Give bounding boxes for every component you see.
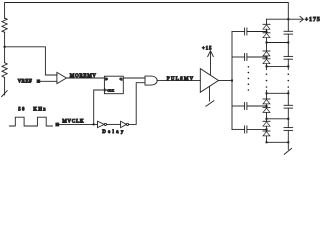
diode D7 xyxy=(266,119,268,122)
capacitor C6 plates xyxy=(284,55,293,57)
wire amplifier output to left rail xyxy=(219,80,233,82)
svg-text:Q: Q xyxy=(120,77,123,81)
svg-text:D: D xyxy=(105,77,108,81)
svg-text:+175: +175 xyxy=(305,16,321,23)
wire delay output to AND gate bottom input xyxy=(129,83,145,125)
capacitor C2 row wire right xyxy=(247,56,267,58)
node8 junction xyxy=(266,128,268,130)
inverter U4 xyxy=(121,121,127,127)
svg-text:VREF: VREF xyxy=(18,80,33,85)
diode D2 xyxy=(266,32,268,33)
negative supply stub xyxy=(209,87,211,101)
flip-flop U2 box xyxy=(104,76,123,94)
right column vertical segments xyxy=(287,19,289,31)
svg-text:MVCLK: MVCLK xyxy=(62,120,84,125)
dots continuation right cap column xyxy=(288,73,290,87)
svg-text:50: 50 xyxy=(18,108,26,113)
capacitor C8 plates xyxy=(284,127,293,129)
node2 wire xyxy=(267,42,289,44)
svg-text:Delay: Delay xyxy=(102,130,125,135)
node1 junction xyxy=(266,31,268,33)
diode column stub above node5 xyxy=(266,91,268,94)
capacitor C5 plates xyxy=(284,30,293,32)
diode column stub below node4 xyxy=(266,66,268,69)
wire R2 to ground xyxy=(4,78,6,95)
capacitor C3 plates xyxy=(244,103,246,110)
wire CLK from MVCLK line xyxy=(94,90,105,124)
resistor R1 xyxy=(2,18,7,32)
left rail xyxy=(231,32,233,130)
diode D1 xyxy=(263,23,270,25)
+175 arrowhead xyxy=(300,16,303,22)
negative supply slash xyxy=(206,101,214,107)
op-amp U1 comparator triangle xyxy=(57,72,67,83)
resistor R2 xyxy=(2,63,7,78)
power +15 arrow xyxy=(210,52,212,75)
diode D6 xyxy=(266,106,268,108)
ground (right) stub xyxy=(287,142,289,149)
AND gate U5 xyxy=(145,76,157,85)
diode D4 xyxy=(266,57,268,59)
wire divider node to comparator + input xyxy=(5,47,57,75)
junction amp/rail xyxy=(231,80,233,82)
capacitor C7 plates xyxy=(284,104,293,106)
diode D5 xyxy=(266,93,268,99)
capacitor C4 row wire left xyxy=(232,128,245,130)
terminal MVCLK square xyxy=(55,123,59,127)
svg-text:PULSMV: PULSMV xyxy=(167,77,195,82)
diode column top wire xyxy=(266,19,268,24)
right column stub above node5 xyxy=(287,91,289,94)
capacitor C2 plates xyxy=(244,54,246,61)
junction MVCLK/CLK tee xyxy=(93,123,95,125)
wire PULSMV AND output to amplifier xyxy=(157,80,200,82)
wire VREF to comparator - input xyxy=(40,80,57,82)
dots continuation left cap column xyxy=(248,66,250,91)
node4 wire xyxy=(267,65,289,67)
node6 junction xyxy=(266,105,268,107)
node divider junction xyxy=(4,46,6,48)
capacitor C1 row wire left xyxy=(232,31,245,33)
diode D8 xyxy=(266,129,268,131)
ground (left slash) xyxy=(2,91,8,97)
capacitor C4 plates xyxy=(244,126,246,133)
wire node to R2 xyxy=(4,47,6,63)
svg-text:CLK: CLK xyxy=(107,88,114,92)
node5 wire xyxy=(267,92,289,94)
wire: top feedback from +175 column to divider top xyxy=(5,3,289,20)
terminal VREF square xyxy=(37,79,41,83)
right column stub below node4 xyxy=(287,66,289,69)
wire +175 node xyxy=(267,18,303,20)
node3 junction xyxy=(266,56,268,58)
ground (right) slash xyxy=(284,148,291,154)
amplifier U6 triangle xyxy=(200,69,218,93)
dots continuation diode column xyxy=(266,73,268,87)
capacitor C4 row wire right xyxy=(247,128,267,130)
wire between inverters xyxy=(107,123,121,125)
wire R1 to node xyxy=(4,32,6,47)
inverter U3 xyxy=(98,121,105,127)
capacitor C3 row wire left xyxy=(232,105,245,107)
capacitor C2 row wire left xyxy=(232,56,245,58)
junction +175/top wire xyxy=(287,18,289,20)
capacitor C3 row wire right xyxy=(247,105,267,107)
svg-text:KHz: KHz xyxy=(33,108,46,113)
wire Q output to AND gate top input xyxy=(123,77,145,79)
node7 wire xyxy=(267,118,289,120)
pin CLK wedge xyxy=(104,89,106,92)
wire MVCLK to inverter chain xyxy=(59,123,97,125)
pulse waveform xyxy=(9,117,52,126)
capacitor C1 plates xyxy=(244,28,246,35)
node9 wire xyxy=(267,141,289,143)
wire MOREMV comparator to flip-flop D xyxy=(67,77,105,79)
diode D3 xyxy=(266,43,268,52)
capacitor C1 row wire right xyxy=(247,31,267,33)
